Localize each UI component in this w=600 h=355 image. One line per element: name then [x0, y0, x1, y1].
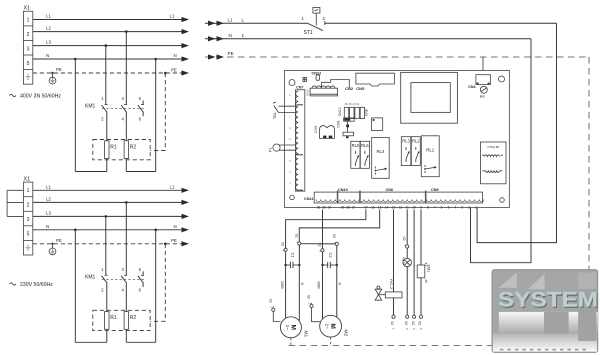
svg-text:38: 38	[346, 205, 350, 209]
wire X2-5 down to M1	[298, 245, 300, 320]
door switch ST1	[302, 8, 326, 37]
contactor coil KM1	[417, 263, 430, 316]
contactor KM1 (230V)	[85, 267, 145, 312]
wire X2-7 down to M2	[336, 246, 338, 318]
strip divider post 3	[425, 191, 427, 203]
wire pin17 to M1 phase	[286, 210, 366, 249]
contactor KM1 (400V)	[85, 96, 145, 141]
resistor R1 (230V)	[105, 312, 117, 343]
svg-text:14: 14	[385, 205, 389, 209]
svg-text:X2: X2	[402, 237, 406, 241]
svg-text:16 15 13 14: 16 15 13 14	[345, 102, 360, 106]
svg-text:X1: X1	[24, 6, 31, 12]
earth screw PE on board	[480, 86, 488, 99]
svg-text:17: 17	[364, 205, 368, 209]
svg-text:P1: P1	[269, 148, 273, 152]
svg-text:X2: X2	[418, 321, 422, 325]
svg-text:R2: R2	[130, 315, 137, 321]
svg-text:X2: X2	[390, 321, 394, 325]
relay RL3	[401, 137, 411, 166]
connector CN3 with lead	[343, 121, 354, 138]
svg-text:RL3: RL3	[402, 139, 410, 144]
svg-text:R1: R1	[110, 315, 117, 321]
relay RL2	[411, 137, 420, 166]
connector CN7 vertical strip	[288, 86, 305, 192]
svg-text:15: 15	[378, 205, 382, 209]
component B1 small square	[303, 77, 307, 81]
svg-text:2.5VA 80: 2.5VA 80	[487, 145, 499, 149]
svg-text:X2: X2	[307, 295, 311, 299]
svg-text:0660: 0660	[317, 281, 321, 288]
svg-text:13: 13	[392, 205, 396, 209]
svg-text:1: 1	[475, 205, 477, 209]
svg-text:CN11: CN11	[304, 197, 314, 201]
svg-text:X2: X2	[294, 234, 298, 238]
wire L3 (400V)	[33, 45, 182, 47]
svg-text:CN4: CN4	[468, 85, 475, 89]
pin numbers bottom strip	[317, 205, 477, 209]
svg-text:CN2: CN2	[345, 86, 354, 91]
svg-text:N: N	[46, 53, 49, 58]
wire X2-4 to C1 node to M1	[285, 251, 287, 318]
svg-text:L1: L1	[46, 14, 51, 19]
terminal X2-6	[317, 243, 324, 253]
wire N feed	[205, 33, 531, 42]
wire PE dashed right side down	[588, 57, 590, 345]
mounting hole bottom-left	[290, 195, 295, 200]
svg-text:1: 1	[27, 17, 30, 23]
svg-text:M2: M2	[343, 330, 349, 337]
wire L3 (230V)	[33, 215, 182, 217]
svg-text:0660: 0660	[280, 281, 284, 288]
svg-text:3: 3	[27, 217, 30, 223]
svg-text:10: 10	[412, 205, 416, 209]
return wire bottom right U (400V)	[126, 171, 155, 173]
earth terminal symbol (230V)	[49, 243, 56, 255]
mounting hole top-left	[289, 80, 295, 86]
svg-text:CV3: CV3	[314, 126, 318, 133]
svg-text:PE: PE	[171, 67, 177, 72]
connector CN2 strip	[306, 86, 338, 96]
wire L2 (400V)	[33, 31, 182, 33]
svg-text:SYSTEM: SYSTEM	[498, 289, 598, 312]
PE dashed drop (400V)	[164, 72, 167, 75]
svg-text:K1V2: K1V2	[306, 89, 310, 96]
PE dashed drop (230V)	[164, 243, 167, 246]
svg-text:37: 37	[352, 205, 356, 209]
svg-text:5: 5	[27, 61, 30, 67]
IC U1 square	[372, 118, 383, 131]
solenoid valve YV1-2	[375, 279, 402, 316]
svg-text:C1: C1	[291, 253, 296, 259]
display module window	[411, 83, 450, 113]
wire PE feed dashed	[205, 51, 589, 60]
connector CN4	[468, 75, 490, 89]
supply label 230V	[10, 282, 54, 288]
svg-text:L2: L2	[46, 26, 51, 31]
svg-text:KM1: KM1	[427, 265, 431, 273]
svg-text:R1: R1	[110, 144, 117, 150]
svg-text:N: N	[174, 224, 177, 229]
svg-text:PE: PE	[56, 238, 62, 243]
svg-text:CN10: CN10	[338, 188, 348, 192]
wire pin35 to M2 phase	[322, 210, 324, 249]
svg-text:PE: PE	[171, 238, 177, 243]
svg-text:N: N	[229, 33, 232, 38]
svg-text:12: 12	[399, 205, 403, 209]
resistor R2 (230V)	[124, 312, 136, 343]
connector housing bracket above CN2	[322, 80, 350, 88]
svg-text:PE: PE	[56, 67, 62, 72]
svg-text:PE: PE	[480, 95, 486, 99]
svg-text:5: 5	[448, 205, 450, 209]
svg-text:1: 1	[27, 188, 30, 194]
svg-text:X2: X2	[332, 234, 336, 238]
capacitor C1	[284, 253, 300, 269]
motor M1	[280, 317, 308, 338]
terminal X2-8	[390, 315, 395, 330]
wire pin15 to M1 neutral	[299, 210, 379, 242]
terminal block X1 (400V) body	[23, 11, 32, 84]
svg-text:L1: L1	[46, 184, 51, 189]
svg-text:HL1: HL1	[401, 257, 405, 264]
terminal X2-11	[418, 315, 423, 330]
wire pin11 to lamp	[406, 210, 408, 245]
PE bond M1 dashed	[290, 338, 292, 346]
svg-text:CN5: CN5	[356, 86, 365, 91]
svg-text:36: 36	[317, 205, 321, 209]
wire PE dashed (230V)	[33, 243, 182, 245]
svg-text:X2: X2	[269, 299, 273, 303]
svg-text:L1: L1	[170, 184, 175, 189]
svg-text:5: 5	[27, 232, 30, 238]
svg-text:KM1: KM1	[85, 274, 96, 280]
node N-right vertical (400V)	[154, 58, 157, 61]
connector CN5 housing outline	[356, 73, 395, 86]
svg-text:N: N	[174, 53, 177, 58]
wire PE bottom dashed run	[289, 344, 589, 346]
mounting hole bottom-right	[500, 198, 505, 203]
wire L1 (230V)	[33, 189, 182, 191]
pressure sensor P1 (left of board)	[269, 144, 296, 152]
svg-text:230V 50/60Hz: 230V 50/60Hz	[20, 282, 53, 288]
svg-text:9: 9	[420, 205, 422, 209]
svg-text:11: 11	[405, 205, 409, 209]
svg-text:1~: 1~	[325, 324, 330, 330]
svg-text:L2: L2	[46, 197, 51, 202]
resistor R2 (400V)	[124, 141, 136, 172]
safety thermostat TB1 (left of board)	[273, 102, 296, 119]
display module outer	[401, 72, 458, 123]
wire X2-6 to C2 node to M2	[322, 252, 324, 319]
wire N (400V)	[33, 58, 182, 60]
wire L1 right-side return to board pin 1	[477, 23, 556, 242]
component CV3	[314, 126, 334, 139]
bottom terminal strip body	[314, 192, 484, 203]
svg-text:N: N	[46, 224, 49, 229]
svg-text:RL6: RL6	[361, 143, 369, 148]
wire pin9 to contactor coil	[420, 210, 422, 266]
terminal X2-3	[402, 237, 409, 249]
wire N (230V)	[33, 229, 182, 231]
node L2 vertical to KM1 pole3 (230V)	[125, 201, 128, 204]
svg-text:X2: X2	[317, 243, 321, 247]
svg-text:TB1: TB1	[273, 112, 277, 119]
svg-text:16: 16	[371, 205, 375, 209]
PE bond M2 dashed	[330, 337, 332, 345]
relay RL1	[421, 136, 439, 177]
svg-text:CN6: CN6	[386, 188, 394, 192]
terminal block X1 (230V) body	[23, 182, 32, 255]
svg-text:L: L	[242, 17, 245, 22]
terminal X2-2 and M2 aux lead	[307, 295, 320, 322]
mounting hole top-right	[499, 76, 505, 82]
terminal X2-1 and M1 aux lead	[269, 299, 281, 322]
wire N right-side return to board pin 2	[471, 39, 532, 263]
relay RL6	[360, 141, 369, 168]
strip divider post 2	[359, 191, 361, 203]
wire pin10 straight down	[413, 210, 415, 316]
terminal X2-9	[404, 315, 409, 330]
terminal X2-10	[411, 315, 416, 330]
svg-text:39: 39	[341, 205, 345, 209]
node L3 vertical to KM1 pole1 (230V)	[105, 215, 108, 218]
terminal X2-7	[332, 234, 339, 245]
svg-text:CN9: CN9	[431, 188, 439, 192]
node L2 vertical to KM1 pole3 (400V)	[125, 30, 128, 33]
svg-text:2: 2	[27, 32, 30, 38]
node L3 vertical to KM1 pole1 (400V)	[105, 44, 108, 47]
svg-text:3: 3	[27, 46, 30, 52]
neutral tie X2-5 to X2-7	[301, 243, 335, 245]
wire L1 after ST1 to right side	[325, 22, 557, 24]
svg-text:7: 7	[434, 205, 436, 209]
svg-text:R2: R2	[130, 144, 137, 150]
return wire bottom left U (400V)	[75, 171, 107, 173]
node N-left vertical (230V)	[74, 229, 77, 232]
wire L1 (400V)	[33, 19, 182, 21]
wire pin13 to solenoid valve	[393, 210, 395, 293]
indicator lamp HL1	[401, 248, 411, 315]
wire PE dashed (400V)	[33, 72, 182, 74]
connector CN12	[312, 71, 322, 80]
return wire bottom right U (230V)	[126, 341, 155, 343]
connector CN9 small block	[336, 118, 354, 128]
svg-text:35: 35	[322, 205, 326, 209]
heater chassis dashed box (230V)	[93, 310, 150, 330]
svg-text:X1: X1	[24, 176, 31, 182]
capacitor C2	[321, 253, 338, 269]
svg-text:C2: C2	[328, 253, 333, 259]
relay RL5	[351, 141, 360, 168]
bridge link terminals 1-2-3 (230V)	[7, 190, 23, 216]
terminal X2-4	[281, 242, 288, 252]
wire L1 feed	[205, 17, 308, 26]
svg-text:L1: L1	[228, 17, 234, 22]
svg-text:a2: a2	[424, 280, 428, 284]
svg-text:CN10: CN10	[338, 107, 342, 116]
svg-text:M1: M1	[303, 331, 309, 338]
svg-text:1~: 1~	[285, 325, 290, 331]
svg-text:YV1-2: YV1-2	[389, 279, 393, 290]
return wire bottom left U (230V)	[75, 341, 107, 343]
svg-text:2: 2	[468, 205, 470, 209]
board outline	[285, 71, 510, 208]
connector CN10 block	[338, 102, 368, 119]
svg-text:RL2: RL2	[412, 139, 420, 144]
svg-text:X2: X2	[281, 242, 285, 246]
svg-text:8: 8	[427, 205, 429, 209]
relay RL4	[372, 138, 390, 179]
svg-text:L1: L1	[170, 14, 175, 19]
resistor R1 (400V)	[105, 141, 117, 172]
svg-text:X2: X2	[411, 321, 415, 325]
svg-text:ST1: ST1	[304, 30, 313, 36]
svg-text:34: 34	[328, 205, 332, 209]
supply label 400V	[10, 94, 62, 100]
svg-text:4: 4	[454, 205, 456, 209]
svg-text:1: 1	[242, 33, 245, 38]
transformer T1	[480, 142, 506, 184]
svg-text:CN9: CN9	[336, 121, 340, 128]
svg-text:PE: PE	[228, 51, 234, 56]
svg-text:L3: L3	[46, 211, 51, 216]
svg-text:3: 3	[461, 205, 463, 209]
wire L2 (230V)	[33, 201, 182, 203]
svg-text:2: 2	[27, 203, 30, 209]
svg-text:RL4: RL4	[376, 149, 384, 154]
svg-text:CN7: CN7	[296, 86, 303, 90]
heater chassis dashed box (400V)	[93, 140, 150, 160]
svg-text:RL5: RL5	[352, 143, 360, 148]
svg-text:X2: X2	[404, 321, 408, 325]
svg-text:CN8: CN8	[365, 109, 369, 116]
node N-left vertical (400V)	[74, 58, 77, 61]
node N-right vertical (230V)	[154, 229, 157, 232]
wire PE tap to CN4	[482, 57, 484, 75]
svg-text:RL1: RL1	[426, 148, 434, 153]
earth terminal symbol (400V)	[49, 72, 56, 84]
terminal X2-5	[294, 234, 301, 246]
motor M2	[320, 315, 349, 337]
svg-text:L3: L3	[46, 40, 51, 45]
svg-text:400V 3N 50/60Hz: 400V 3N 50/60Hz	[20, 94, 61, 100]
svg-text:KM1: KM1	[85, 104, 96, 110]
strip divider post 1	[337, 191, 339, 203]
svg-text:6: 6	[441, 205, 443, 209]
